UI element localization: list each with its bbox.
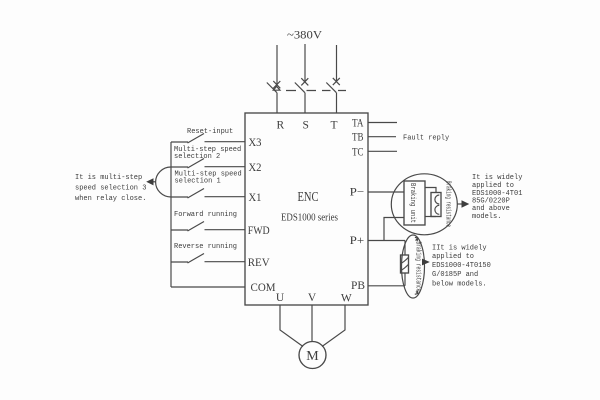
wire X3 left bbox=[171, 141, 188, 143]
switch X1 blade bbox=[188, 189, 205, 199]
wire R below breaker bbox=[276, 93, 278, 113]
breaker pole R blade bbox=[267, 83, 277, 93]
svg-text:models.: models. bbox=[472, 213, 501, 221]
left control bus bbox=[170, 142, 172, 287]
wire P+ bbox=[368, 240, 405, 242]
wire S input top bbox=[304, 44, 306, 82]
wire TA bbox=[368, 122, 397, 124]
svg-text:M: M bbox=[306, 349, 319, 364]
switch FWD blade bbox=[188, 222, 205, 232]
arrow to note 2 bbox=[422, 259, 430, 266]
inverter main box U1 EDS1000 bbox=[245, 113, 368, 305]
wire braking unit to resistor bottom bbox=[425, 216, 436, 218]
svg-text:COM: COM bbox=[251, 282, 276, 294]
svg-text:G/0185P and: G/0185P and bbox=[432, 271, 478, 279]
svg-text:IIt is widely: IIt is widely bbox=[432, 245, 487, 253]
svg-text:when relay close.: when relay close. bbox=[75, 195, 146, 203]
grouping ellipse braking resistance bbox=[402, 235, 425, 298]
wire COM bbox=[171, 286, 245, 288]
svg-text:~380V: ~380V bbox=[287, 28, 322, 42]
svg-text:P−: P− bbox=[350, 187, 365, 199]
breaker pole R trip triangle bbox=[273, 86, 280, 90]
wire T below breaker bbox=[336, 93, 338, 113]
breaker pole T contact X bbox=[333, 78, 340, 85]
wire X2 left bbox=[171, 166, 188, 168]
wire U to motor bbox=[280, 305, 303, 347]
svg-text:X3: X3 bbox=[249, 137, 262, 149]
svg-text:below models.: below models. bbox=[432, 281, 487, 289]
wire PB bbox=[368, 285, 405, 287]
svg-text:EDS1000 series: EDS1000 series bbox=[281, 213, 338, 224]
switch X2 blade bbox=[188, 159, 205, 169]
wire X3 right bbox=[205, 141, 246, 143]
grouping circle braking unit bbox=[391, 174, 457, 235]
wire X1 right bbox=[205, 196, 246, 198]
wire resistor 2 to PB bbox=[404, 273, 406, 286]
svg-text:X2: X2 bbox=[249, 162, 262, 174]
wire FWD right bbox=[205, 229, 246, 231]
svg-text:Reverse running: Reverse running bbox=[174, 243, 237, 251]
svg-text:selection 1: selection 1 bbox=[175, 178, 221, 186]
wire V to motor bbox=[311, 305, 313, 342]
annotation arc multi-step selection 3 bbox=[156, 167, 171, 197]
arrow to note 1 bbox=[458, 203, 463, 205]
svg-text:Reset-input: Reset-input bbox=[187, 128, 233, 136]
leader arrowhead ellipse2 bottom bbox=[415, 290, 418, 294]
svg-text:selection 2: selection 2 bbox=[174, 153, 220, 161]
wire REV left bbox=[171, 261, 188, 263]
wire FWD left bbox=[171, 229, 188, 231]
svg-text:applied to: applied to bbox=[472, 182, 514, 190]
svg-text:P+: P+ bbox=[350, 235, 365, 247]
leader arrowhead ellipse2 top bbox=[415, 237, 418, 241]
wire TC bbox=[368, 150, 397, 152]
wire P+ branch to braking unit bbox=[384, 218, 404, 241]
wire braking unit to resistor top bbox=[425, 188, 436, 193]
svg-text:TA: TA bbox=[352, 118, 364, 130]
resistor braking resistance (external) bbox=[401, 255, 409, 273]
motor M bbox=[299, 342, 326, 369]
svg-text:R: R bbox=[276, 120, 284, 132]
annotation arrow left bbox=[152, 181, 156, 183]
wire REV right bbox=[205, 261, 246, 263]
svg-text:T: T bbox=[330, 120, 337, 132]
svg-text:U: U bbox=[276, 292, 285, 304]
svg-text:ENC: ENC bbox=[298, 190, 319, 205]
wire X2 right bbox=[205, 166, 246, 168]
svg-text:TC: TC bbox=[352, 147, 364, 159]
breaker pole S contact X bbox=[301, 78, 308, 85]
svg-text:It is widely: It is widely bbox=[472, 174, 522, 182]
wire TB bbox=[368, 136, 396, 138]
wire T input top bbox=[336, 45, 338, 82]
svg-text:Fault reply: Fault reply bbox=[403, 135, 449, 143]
breaker pole R contact X bbox=[273, 81, 280, 88]
switch REV blade bbox=[188, 254, 205, 264]
svg-text:REV: REV bbox=[248, 257, 271, 269]
wire X1 left bbox=[171, 196, 188, 198]
wire S below breaker bbox=[304, 93, 306, 113]
svg-text:S: S bbox=[302, 120, 308, 132]
svg-text:Forward running: Forward running bbox=[174, 211, 237, 219]
svg-text:It is multi-step: It is multi-step bbox=[75, 174, 142, 182]
svg-text:Braking resistance: Braking resistance bbox=[413, 242, 421, 292]
breaker linkage dashed line bbox=[286, 90, 346, 92]
svg-text:V: V bbox=[308, 292, 317, 304]
wire P- bbox=[368, 191, 404, 193]
breaker pole T blade bbox=[326, 83, 336, 93]
svg-text:and above: and above bbox=[472, 205, 510, 213]
svg-text:X1: X1 bbox=[249, 192, 262, 204]
breaker pole S blade bbox=[295, 83, 305, 93]
svg-text:Braking resistance: Braking resistance bbox=[444, 181, 452, 227]
resistor braking (unit circle) bbox=[431, 193, 441, 217]
svg-text:applied to: applied to bbox=[432, 253, 474, 261]
svg-text:TB: TB bbox=[352, 132, 364, 144]
switch X3 blade bbox=[188, 134, 205, 144]
svg-text:speed selection 3: speed selection 3 bbox=[75, 185, 146, 193]
wire P+ down to resistor 2 bbox=[404, 241, 406, 256]
braking unit box bbox=[404, 181, 425, 225]
svg-text:PB: PB bbox=[351, 280, 365, 292]
svg-text:FWD: FWD bbox=[248, 225, 270, 237]
svg-text:W: W bbox=[341, 293, 352, 305]
wire W to motor bbox=[322, 305, 345, 347]
wire R input top bbox=[276, 45, 278, 85]
svg-text:Braking unit: Braking unit bbox=[408, 183, 416, 223]
svg-text:EDS1000-4T0150: EDS1000-4T0150 bbox=[432, 262, 491, 270]
